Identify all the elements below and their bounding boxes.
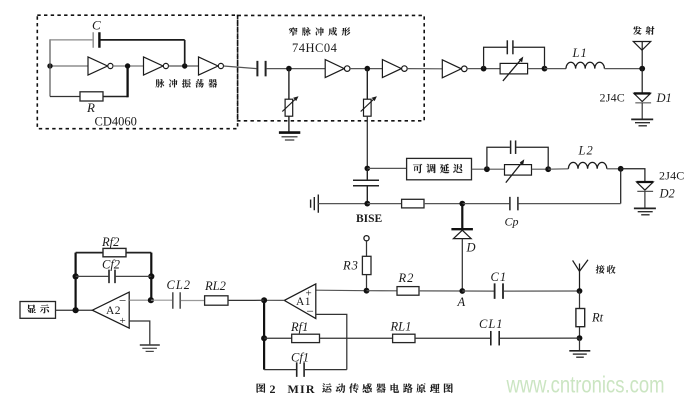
wire CL1 to ground node bbox=[500, 337, 580, 339]
op-amp A1 bbox=[284, 284, 316, 319]
wire RP1 to ground bbox=[288, 116, 290, 132]
wire capacitor C left lead bbox=[50, 39, 93, 41]
svg-text:D2: D2 bbox=[659, 187, 675, 201]
wire A1 feedback vertical bbox=[263, 300, 265, 369]
svg-text:R: R bbox=[86, 100, 95, 115]
node N11 bbox=[545, 166, 551, 172]
node RX bbox=[577, 288, 583, 294]
wire resistor to node N13 bbox=[424, 203, 462, 205]
wire N12 to D2 bbox=[621, 169, 645, 182]
wire A2 feedback right vertical bbox=[150, 253, 152, 301]
node Cf2 right bbox=[148, 273, 154, 279]
capacitor Cf1 bbox=[296, 362, 298, 377]
svg-text:C: C bbox=[92, 18, 101, 33]
node N1 left bbox=[47, 63, 52, 68]
wire Rt to ground node bbox=[579, 327, 581, 338]
wire capacitor C right lead bbox=[100, 39, 185, 41]
label transmit bbox=[633, 26, 642, 35]
node N10 bbox=[484, 166, 490, 172]
wire A1 minus to feedback bbox=[316, 314, 347, 369]
node N5 bbox=[365, 66, 371, 72]
resistor RL1 bbox=[393, 334, 415, 342]
svg-text:2J4C: 2J4C bbox=[600, 91, 625, 105]
svg-text:RL2: RL2 bbox=[204, 279, 226, 293]
node N4 bbox=[286, 66, 292, 72]
svg-text:74HC04: 74HC04 bbox=[292, 41, 338, 55]
inverter U2A bbox=[325, 60, 350, 78]
capacitor parallel TX bbox=[506, 40, 508, 54]
node N3 bbox=[182, 63, 187, 68]
diode D2 bbox=[637, 182, 654, 191]
antenna receive bbox=[573, 260, 588, 291]
wire N13 down to D bbox=[461, 204, 463, 229]
wire A2 minus row bbox=[129, 299, 151, 301]
diode D1 bbox=[634, 69, 651, 103]
wire node to Rf1 bbox=[264, 337, 292, 339]
capacitor CL1 bbox=[490, 331, 492, 346]
resistor R bbox=[80, 92, 103, 101]
node A1 out bbox=[261, 297, 267, 303]
node RX ground bbox=[577, 335, 583, 341]
svg-text:+: + bbox=[120, 315, 126, 327]
capacitor C1 bbox=[494, 283, 496, 299]
wire Rf2 row left bbox=[76, 252, 103, 254]
node N2 bbox=[125, 63, 130, 68]
wire C1 to RX node bbox=[504, 290, 580, 292]
capacitor CL2 bbox=[172, 292, 174, 309]
trimmer RP2 bbox=[361, 96, 377, 116]
capacitor C bbox=[92, 32, 94, 48]
capacitor parallel delay bbox=[510, 140, 512, 154]
inductor L1 bbox=[566, 62, 604, 68]
node N9 delay input bbox=[365, 166, 371, 172]
svg-text:BISE: BISE bbox=[356, 213, 383, 225]
ground for Rt bbox=[569, 351, 590, 357]
node N6 bbox=[481, 66, 487, 72]
wire node A to C1 bbox=[462, 290, 494, 292]
diode D bbox=[451, 229, 473, 238]
capacitor Cf2 bbox=[108, 270, 110, 284]
wire R3 to plus node bbox=[366, 275, 368, 291]
wire Cf2 row left bbox=[76, 275, 109, 277]
wire cap branch delay bbox=[487, 147, 548, 169]
svg-text:C1: C1 bbox=[491, 270, 508, 284]
inverter U2C bbox=[442, 60, 467, 78]
wire to RX ground bbox=[579, 338, 581, 350]
block display bbox=[20, 302, 56, 319]
wire left branch vertical bbox=[49, 39, 51, 96]
wire Cf1 to feedback right bbox=[305, 369, 347, 371]
wire R to vertical bbox=[103, 96, 128, 98]
wire A1 output bbox=[264, 299, 284, 301]
node Cf2 left bbox=[73, 273, 79, 279]
wire N9 to delay box bbox=[367, 167, 406, 169]
wire A2 minus to CL2 bbox=[151, 299, 172, 301]
svg-text:RL1: RL1 bbox=[390, 320, 412, 334]
wire U1B to node N3 bbox=[169, 65, 199, 67]
wire U2C to node N6 bbox=[467, 68, 500, 70]
wire N3 up to C bbox=[184, 40, 186, 66]
wire Cp to N12 branch bbox=[519, 203, 621, 205]
trimmer RP1 bbox=[282, 96, 298, 116]
svg-text:www.cntronics.com: www.cntronics.com bbox=[506, 372, 665, 398]
wire U1C out to coupling cap bbox=[224, 66, 257, 69]
wire N13 to Cp bbox=[462, 203, 509, 205]
wire cap branch TX bbox=[484, 47, 545, 68]
svg-text:−: − bbox=[119, 293, 126, 308]
ground for D2 bbox=[634, 208, 656, 214]
wire N2 down feedback bbox=[126, 66, 128, 97]
wire delay box to node N10 bbox=[472, 168, 505, 170]
dashed box CD4060 oscillator block bbox=[37, 15, 237, 129]
resistor Rf2 bbox=[103, 248, 126, 256]
wire D2 to ground bbox=[644, 191, 646, 208]
node BISE bbox=[364, 201, 370, 207]
trimmer RT1 horizontal bbox=[500, 57, 527, 81]
svg-text:R3: R3 bbox=[342, 259, 359, 273]
wire RX node to Rt bbox=[579, 291, 581, 309]
wire node to R2 bbox=[367, 290, 398, 292]
svg-text:L2: L2 bbox=[578, 144, 594, 158]
ground sideways left bbox=[311, 195, 319, 213]
inductor L2 bbox=[568, 162, 606, 168]
wire U2B to inverter U2C bbox=[407, 68, 442, 70]
wire N11 to L2 bbox=[548, 168, 568, 170]
svg-text:CL1: CL1 bbox=[479, 317, 504, 331]
svg-text:+: + bbox=[306, 288, 312, 300]
label display bbox=[28, 305, 36, 313]
wire N4 down to pot RP1 bbox=[288, 69, 290, 100]
wire terminal to R3 bbox=[366, 241, 368, 256]
label pulse oscillator bbox=[156, 79, 165, 88]
wire RL1 to CL1 bbox=[415, 337, 490, 339]
node N12 bbox=[618, 166, 624, 172]
antenna transmit bbox=[633, 42, 650, 69]
terminal circle R3 bbox=[364, 236, 369, 241]
resistor Rf1 bbox=[292, 334, 320, 342]
block adjustable delay bbox=[407, 158, 472, 179]
ground for RP1 bbox=[279, 133, 300, 140]
ground for D1 bbox=[631, 119, 653, 125]
node N7 bbox=[542, 66, 548, 72]
svg-text:CD4060: CD4060 bbox=[95, 115, 137, 129]
svg-text:Cp: Cp bbox=[505, 215, 519, 229]
wire bottom feedback left bbox=[50, 96, 80, 98]
wire RP2 down to delay node bbox=[366, 116, 368, 168]
svg-text:CL2: CL2 bbox=[167, 278, 192, 292]
svg-text:R2: R2 bbox=[398, 271, 415, 285]
capacitor Cp bbox=[509, 197, 511, 211]
wire BISE to resistor bbox=[367, 203, 401, 205]
wire Rf1 to RL1 bbox=[320, 337, 393, 339]
svg-text:−: − bbox=[307, 304, 314, 319]
inverter U1C bbox=[199, 57, 224, 75]
caption figure 2 bbox=[256, 382, 452, 396]
wire A2 plus row bbox=[129, 321, 150, 344]
wire input row to inverter U1A bbox=[50, 65, 88, 67]
ground for A2 bbox=[140, 345, 160, 351]
svg-text:Rf1: Rf1 bbox=[290, 320, 308, 334]
inverter U2B bbox=[382, 60, 407, 78]
wire CL2 to RL2 bbox=[181, 300, 205, 302]
wire N7 to L1 bbox=[545, 68, 567, 70]
wire U2A to node N5 bbox=[350, 68, 382, 70]
wire D to node A bbox=[461, 239, 463, 291]
trimmer RT2 horizontal bbox=[505, 159, 532, 182]
svg-text:2J4C: 2J4C bbox=[659, 169, 684, 183]
label narrow pulse shaping bbox=[289, 27, 298, 36]
wire Cf2 row right bbox=[116, 275, 152, 277]
wire D1 to ground bbox=[641, 103, 643, 119]
resistor R2 bbox=[397, 287, 419, 296]
coupling capacitor into 74HC04 bbox=[256, 61, 258, 77]
wire N5 down to pot RP2 bbox=[366, 69, 368, 100]
wire L2 to node N12 bbox=[607, 168, 621, 170]
node N8 antenna bbox=[639, 66, 645, 72]
svg-text:Cf2: Cf2 bbox=[102, 258, 120, 272]
node A2 out bbox=[73, 307, 79, 313]
wire cap to node N4 bbox=[267, 68, 326, 70]
wire U1A to node N2 bbox=[113, 65, 144, 67]
node Rf1 junction bbox=[261, 335, 267, 341]
capacitor bias vertical bbox=[353, 168, 379, 203]
svg-text:MIR: MIR bbox=[288, 382, 316, 396]
resistor R3 bbox=[362, 256, 371, 274]
inverter U1A bbox=[88, 57, 113, 75]
svg-text:Cf1: Cf1 bbox=[291, 351, 309, 365]
wire Rf2 row right bbox=[126, 252, 151, 254]
svg-text:Rt: Rt bbox=[591, 311, 604, 325]
resistor bias bbox=[402, 199, 424, 208]
label receive bbox=[596, 265, 605, 274]
svg-text:L1: L1 bbox=[572, 46, 588, 60]
wire gnd to BISE node bbox=[318, 203, 367, 205]
svg-text:D: D bbox=[466, 241, 476, 255]
label adjustable delay bbox=[413, 164, 422, 173]
resistor RL2 bbox=[205, 296, 228, 305]
wire L1 to antenna node bbox=[604, 68, 642, 70]
wire N12 down to BISE row bbox=[620, 169, 622, 204]
dashed box 74HC04 pulse shaping block bbox=[238, 15, 425, 120]
svg-text:A: A bbox=[457, 295, 466, 309]
wire Cf1 row bbox=[264, 369, 296, 371]
wire RT2 to node N11 bbox=[532, 168, 549, 170]
svg-text:D1: D1 bbox=[656, 91, 672, 105]
wire R2 to node A bbox=[419, 290, 462, 292]
node A2 minus bbox=[148, 297, 154, 303]
inverter U1B bbox=[144, 57, 169, 75]
wire A1 plus input row bbox=[316, 289, 367, 292]
wire RL2 to A1 out bbox=[228, 299, 264, 301]
wire A2 feedback left vertical bbox=[74, 253, 76, 311]
resistor Rt bbox=[576, 309, 585, 327]
wire display to A2 out bbox=[56, 309, 93, 311]
svg-text:2: 2 bbox=[270, 382, 276, 396]
node R3 junction bbox=[364, 288, 370, 294]
op-amp A2 bbox=[92, 292, 129, 328]
node A bbox=[459, 288, 465, 294]
node N13 bbox=[459, 201, 465, 207]
svg-text:Rf2: Rf2 bbox=[101, 235, 119, 249]
wire RT1 to node N7 bbox=[528, 68, 545, 70]
